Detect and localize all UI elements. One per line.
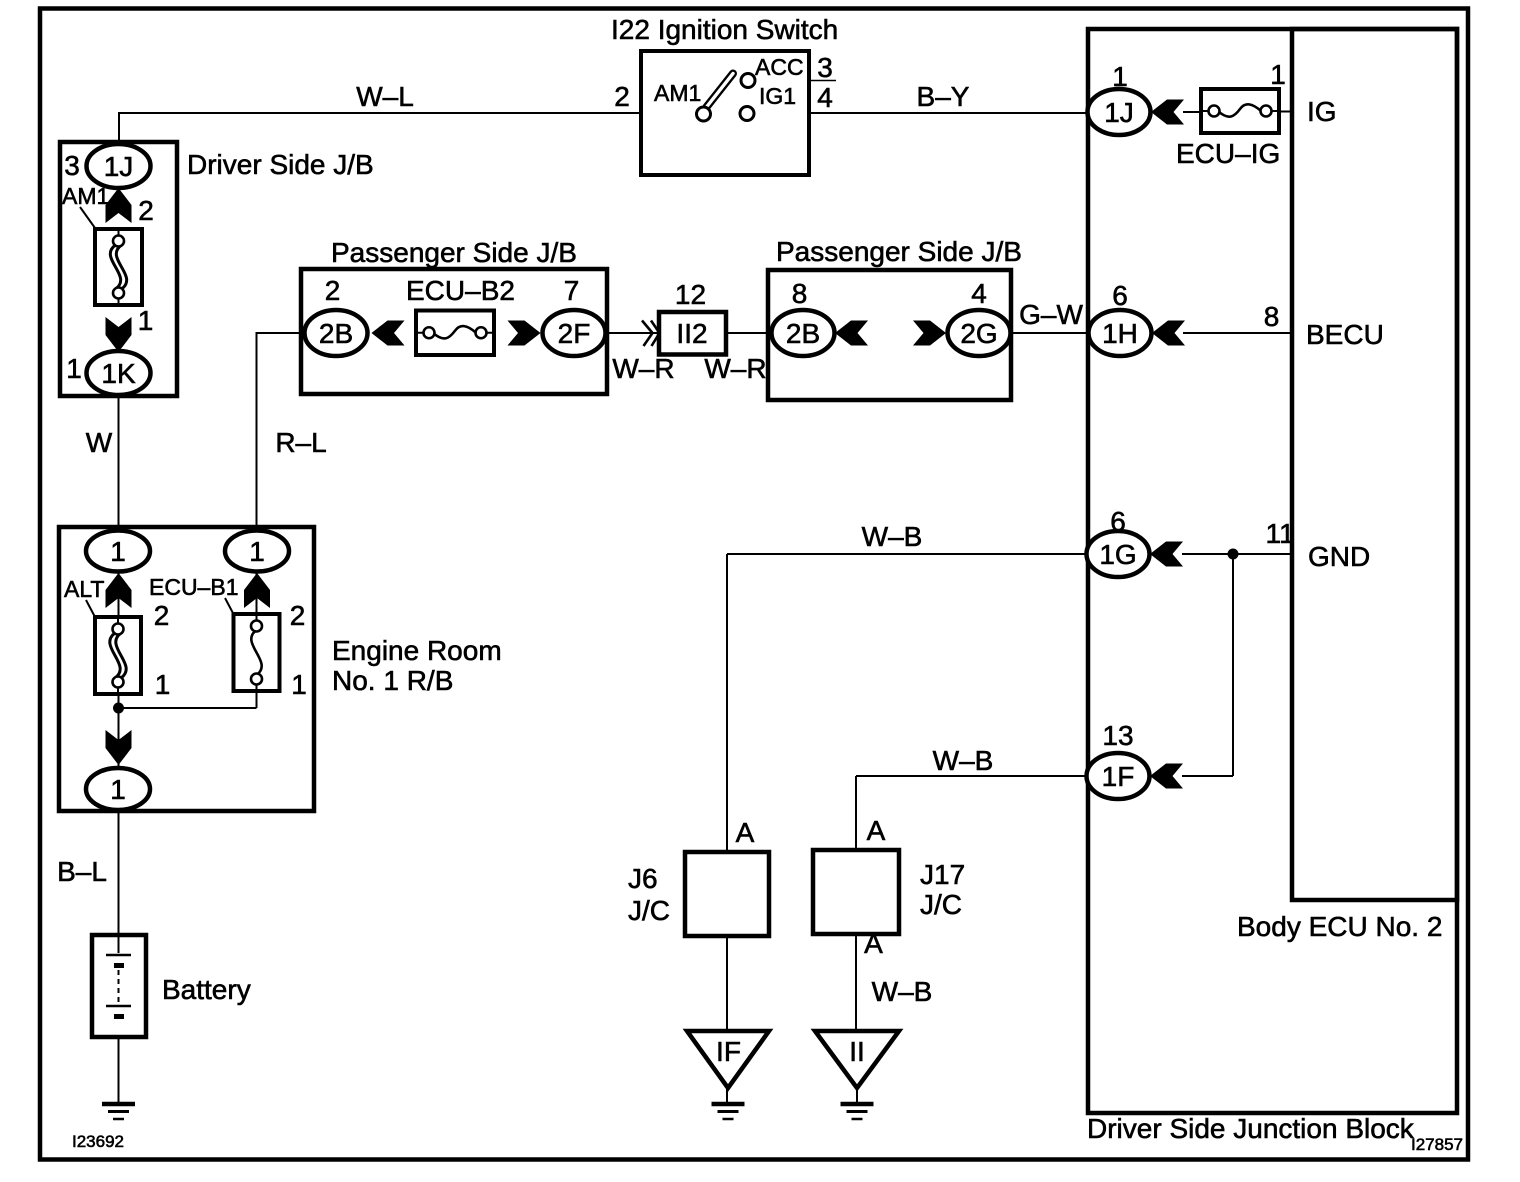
svg-text:1J: 1J <box>104 151 134 182</box>
svg-text:2: 2 <box>154 600 170 631</box>
svg-text:W: W <box>86 427 113 458</box>
svg-text:3: 3 <box>64 150 80 181</box>
svg-text:2: 2 <box>138 195 154 226</box>
svg-text:B–L: B–L <box>57 856 107 887</box>
svg-text:W–R: W–R <box>612 353 674 384</box>
svg-text:1: 1 <box>155 669 171 700</box>
svg-text:1K: 1K <box>101 358 136 389</box>
svg-text:B–Y: B–Y <box>917 81 970 112</box>
svg-text:GND: GND <box>1308 541 1370 572</box>
svg-text:1: 1 <box>138 305 154 336</box>
svg-text:2G: 2G <box>960 318 997 349</box>
svg-text:1: 1 <box>1112 61 1128 92</box>
svg-text:No. 1 R/B: No. 1 R/B <box>332 665 453 696</box>
svg-text:8: 8 <box>792 278 808 309</box>
svg-text:2: 2 <box>290 600 306 631</box>
svg-text:ECU–IG: ECU–IG <box>1176 138 1280 169</box>
svg-text:J6: J6 <box>628 863 658 894</box>
svg-text:6: 6 <box>1112 280 1128 311</box>
svg-text:1: 1 <box>66 353 82 384</box>
svg-text:4: 4 <box>971 278 987 309</box>
svg-text:7: 7 <box>564 275 580 306</box>
svg-text:1H: 1H <box>1102 318 1138 349</box>
svg-text:1: 1 <box>291 669 307 700</box>
svg-text:W–R: W–R <box>704 353 766 384</box>
svg-text:6: 6 <box>1110 506 1126 537</box>
svg-text:8: 8 <box>1264 301 1280 332</box>
svg-text:Passenger Side J/B: Passenger Side J/B <box>776 236 1022 267</box>
svg-text:11: 11 <box>1265 518 1294 549</box>
svg-text:IG: IG <box>1307 96 1337 127</box>
svg-text:I23692: I23692 <box>72 1132 124 1151</box>
svg-text:1: 1 <box>110 536 126 567</box>
svg-text:W–B: W–B <box>933 745 994 776</box>
svg-text:2B: 2B <box>319 318 353 349</box>
svg-text:13: 13 <box>1102 720 1133 751</box>
svg-text:1F: 1F <box>1102 761 1135 792</box>
svg-text:2: 2 <box>614 81 630 112</box>
svg-text:I27857: I27857 <box>1411 1135 1463 1154</box>
svg-text:Engine Room: Engine Room <box>332 635 502 666</box>
svg-text:I22 Ignition Switch: I22 Ignition Switch <box>611 14 838 45</box>
svg-text:J17: J17 <box>920 859 965 890</box>
svg-text:W–B: W–B <box>862 521 923 552</box>
svg-text:A: A <box>736 817 755 848</box>
svg-text:AM1: AM1 <box>62 183 109 209</box>
svg-text:ECU–B2: ECU–B2 <box>406 275 515 306</box>
svg-text:A: A <box>867 815 886 846</box>
svg-text:2F: 2F <box>558 318 591 349</box>
svg-text:1: 1 <box>249 536 265 567</box>
svg-text:Passenger Side J/B: Passenger Side J/B <box>331 237 577 268</box>
svg-text:2: 2 <box>325 275 341 306</box>
svg-text:Body ECU No. 2: Body ECU No. 2 <box>1237 911 1442 942</box>
svg-text:A: A <box>864 928 883 959</box>
svg-text:ECU–B1: ECU–B1 <box>149 574 238 600</box>
svg-text:1: 1 <box>1270 59 1286 90</box>
svg-text:J/C: J/C <box>920 889 962 920</box>
svg-text:Driver Side Junction Block: Driver Side Junction Block <box>1087 1113 1415 1144</box>
svg-text:W–B: W–B <box>872 976 933 1007</box>
svg-text:II2: II2 <box>676 318 707 349</box>
svg-text:R–L: R–L <box>275 427 326 458</box>
svg-text:BECU: BECU <box>1306 319 1384 350</box>
svg-text:IG1: IG1 <box>759 83 796 109</box>
svg-text:1J: 1J <box>1104 97 1134 128</box>
svg-text:ACC: ACC <box>755 54 804 80</box>
svg-text:3: 3 <box>817 52 833 83</box>
svg-text:12: 12 <box>675 279 706 310</box>
svg-text:1: 1 <box>110 774 126 805</box>
svg-text:ALT: ALT <box>64 576 104 602</box>
svg-text:Battery: Battery <box>162 974 251 1005</box>
svg-text:2B: 2B <box>786 318 820 349</box>
svg-text:J/C: J/C <box>628 895 670 926</box>
svg-text:4: 4 <box>817 82 833 113</box>
svg-text:G–W: G–W <box>1019 299 1083 330</box>
svg-text:IF: IF <box>716 1036 741 1067</box>
svg-text:W–L: W–L <box>356 81 414 112</box>
svg-text:AM1: AM1 <box>654 80 701 106</box>
svg-text:1G: 1G <box>1099 539 1136 570</box>
svg-text:II: II <box>849 1036 865 1067</box>
svg-text:Driver Side J/B: Driver Side J/B <box>187 149 374 180</box>
